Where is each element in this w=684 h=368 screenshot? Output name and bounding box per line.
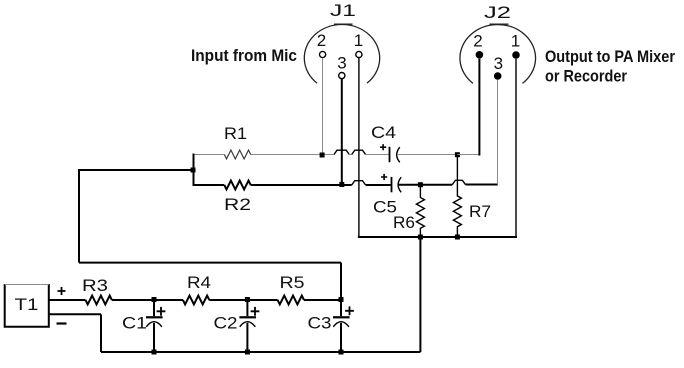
capacitor C5 polarity + xyxy=(381,174,387,180)
J1 pin 3 terminal xyxy=(339,73,345,79)
J2 pin 1 terminal xyxy=(512,51,520,59)
junction C2 top xyxy=(245,297,250,302)
resistor R4 xyxy=(183,296,209,305)
junction C1 top xyxy=(152,297,157,302)
svg-text:R7: R7 xyxy=(469,202,491,221)
wire R5 to C3 node xyxy=(304,299,341,301)
resistor R5 xyxy=(278,296,304,305)
J2 pin 3 terminal xyxy=(494,72,502,80)
capacitor C1 polarity + xyxy=(157,307,166,316)
wire J2 pin 3 down xyxy=(497,80,499,185)
capacitor C3 xyxy=(333,300,350,352)
svg-text:or Recorder: or Recorder xyxy=(545,67,627,86)
connector J2 shell xyxy=(460,24,536,83)
resistor R6 xyxy=(416,187,424,237)
T1 minus terminal mark xyxy=(57,322,67,324)
capacitor C3 polarity + xyxy=(345,306,354,315)
wire feedback left vertical xyxy=(78,169,80,263)
svg-text:C2: C2 xyxy=(214,314,238,333)
junction C1 bottom xyxy=(152,350,157,355)
wire R2 to pin3 node xyxy=(251,184,352,186)
wire C5 to R6 node xyxy=(399,184,421,186)
wire J2 pin 2 down xyxy=(478,59,480,156)
junction C4/R7 xyxy=(455,152,460,157)
capacitor C1 xyxy=(146,300,163,352)
wire feedback down to R5/C3 node xyxy=(340,263,342,300)
wire T1 minus xyxy=(49,313,101,315)
svg-text:2: 2 xyxy=(473,32,482,51)
svg-text:J1: J1 xyxy=(330,1,356,20)
svg-text:R2: R2 xyxy=(224,195,251,214)
capacitor C4 polarity + xyxy=(380,144,386,150)
svg-text:R4: R4 xyxy=(187,273,211,292)
wire J1 pin 3 to R2 node xyxy=(341,79,343,184)
junction left feedback node xyxy=(191,168,196,173)
svg-text:1: 1 xyxy=(354,31,363,50)
resistor R2 xyxy=(224,181,250,190)
junction C5/R6 xyxy=(418,182,423,187)
wire R7 node to J2 pin 2 corner xyxy=(457,154,479,156)
svg-text:R5: R5 xyxy=(280,273,305,292)
svg-text:3: 3 xyxy=(337,54,346,73)
svg-text:3: 3 xyxy=(494,54,503,73)
svg-text:R3: R3 xyxy=(82,276,108,295)
wire R2 line left lead xyxy=(194,184,225,186)
svg-text:C4: C4 xyxy=(371,123,396,142)
resistor R7 xyxy=(453,157,461,237)
svg-text:C3: C3 xyxy=(308,314,332,333)
svg-text:1: 1 xyxy=(511,32,520,51)
wire hop to C4 xyxy=(366,154,389,156)
J1 pin 2 terminal xyxy=(320,51,326,57)
wire bottom rail up to ground rail xyxy=(419,237,421,352)
wire hop over R7 xyxy=(452,180,465,184)
capacitor C2 xyxy=(239,300,256,352)
wire minus elbow down xyxy=(100,314,102,352)
wire R1-R2 left vertical xyxy=(193,154,195,187)
wire feedback bottom horizontal xyxy=(79,262,341,264)
J1 pin 1 terminal xyxy=(356,51,362,57)
junction C3 top xyxy=(339,297,344,302)
svg-text:R1: R1 xyxy=(224,124,247,143)
svg-text:2: 2 xyxy=(317,31,326,50)
wire hop over pin3 wire xyxy=(334,150,349,154)
wire hop to C5 xyxy=(366,184,391,186)
T1 plus terminal mark xyxy=(58,287,66,295)
junction R2/pin3 xyxy=(339,182,344,187)
wire R1 to pin2 node xyxy=(251,154,334,156)
transformer T1 box xyxy=(5,284,49,327)
svg-text:Input from Mic: Input from Mic xyxy=(191,46,297,65)
capacitor C2 polarity + xyxy=(251,307,260,316)
bottom rail xyxy=(101,351,420,353)
svg-text:R6: R6 xyxy=(393,213,415,232)
junction rail/R6 xyxy=(418,235,423,240)
svg-text:T1: T1 xyxy=(15,295,39,314)
wire R4 to C2 node xyxy=(209,299,277,301)
junction C2 bottom xyxy=(245,350,250,355)
svg-text:J2: J2 xyxy=(484,3,511,22)
wire J1 pin 1 to ground rail xyxy=(358,58,360,237)
ground rail xyxy=(358,236,517,238)
wire R3 to C1 node xyxy=(112,299,183,301)
wire R6 node to R7 hop xyxy=(420,184,452,186)
wire hop over pin1 wire xyxy=(352,150,366,154)
wire C4 to R7 node xyxy=(397,154,457,156)
svg-text:C1: C1 xyxy=(122,314,147,333)
capacitor C5 xyxy=(391,177,402,192)
wire hop to J2 pin 3 corner xyxy=(466,184,498,186)
J2 pin 2 terminal xyxy=(476,51,484,59)
junction R1/pin2 xyxy=(320,153,325,158)
svg-text:Output to PA Mixer: Output to PA Mixer xyxy=(545,47,675,66)
resistor R3 xyxy=(86,296,112,305)
wire T1 plus to R3 xyxy=(49,299,86,301)
connector J1 shell xyxy=(304,24,379,83)
junction rail/R7 xyxy=(455,235,460,240)
wire J2 pin 1 down to ground rail xyxy=(515,59,517,237)
wire hop over pin1 wire on R2 line xyxy=(352,181,366,185)
junction C3 bottom xyxy=(339,350,344,355)
resistor R1 xyxy=(224,150,250,159)
wire feedback horizontal xyxy=(79,169,194,171)
capacitor C4 xyxy=(389,147,400,163)
wire R1 line left lead xyxy=(194,154,225,156)
wire J1 pin 2 to R1 node xyxy=(322,58,324,153)
wire between hops xyxy=(349,154,351,156)
